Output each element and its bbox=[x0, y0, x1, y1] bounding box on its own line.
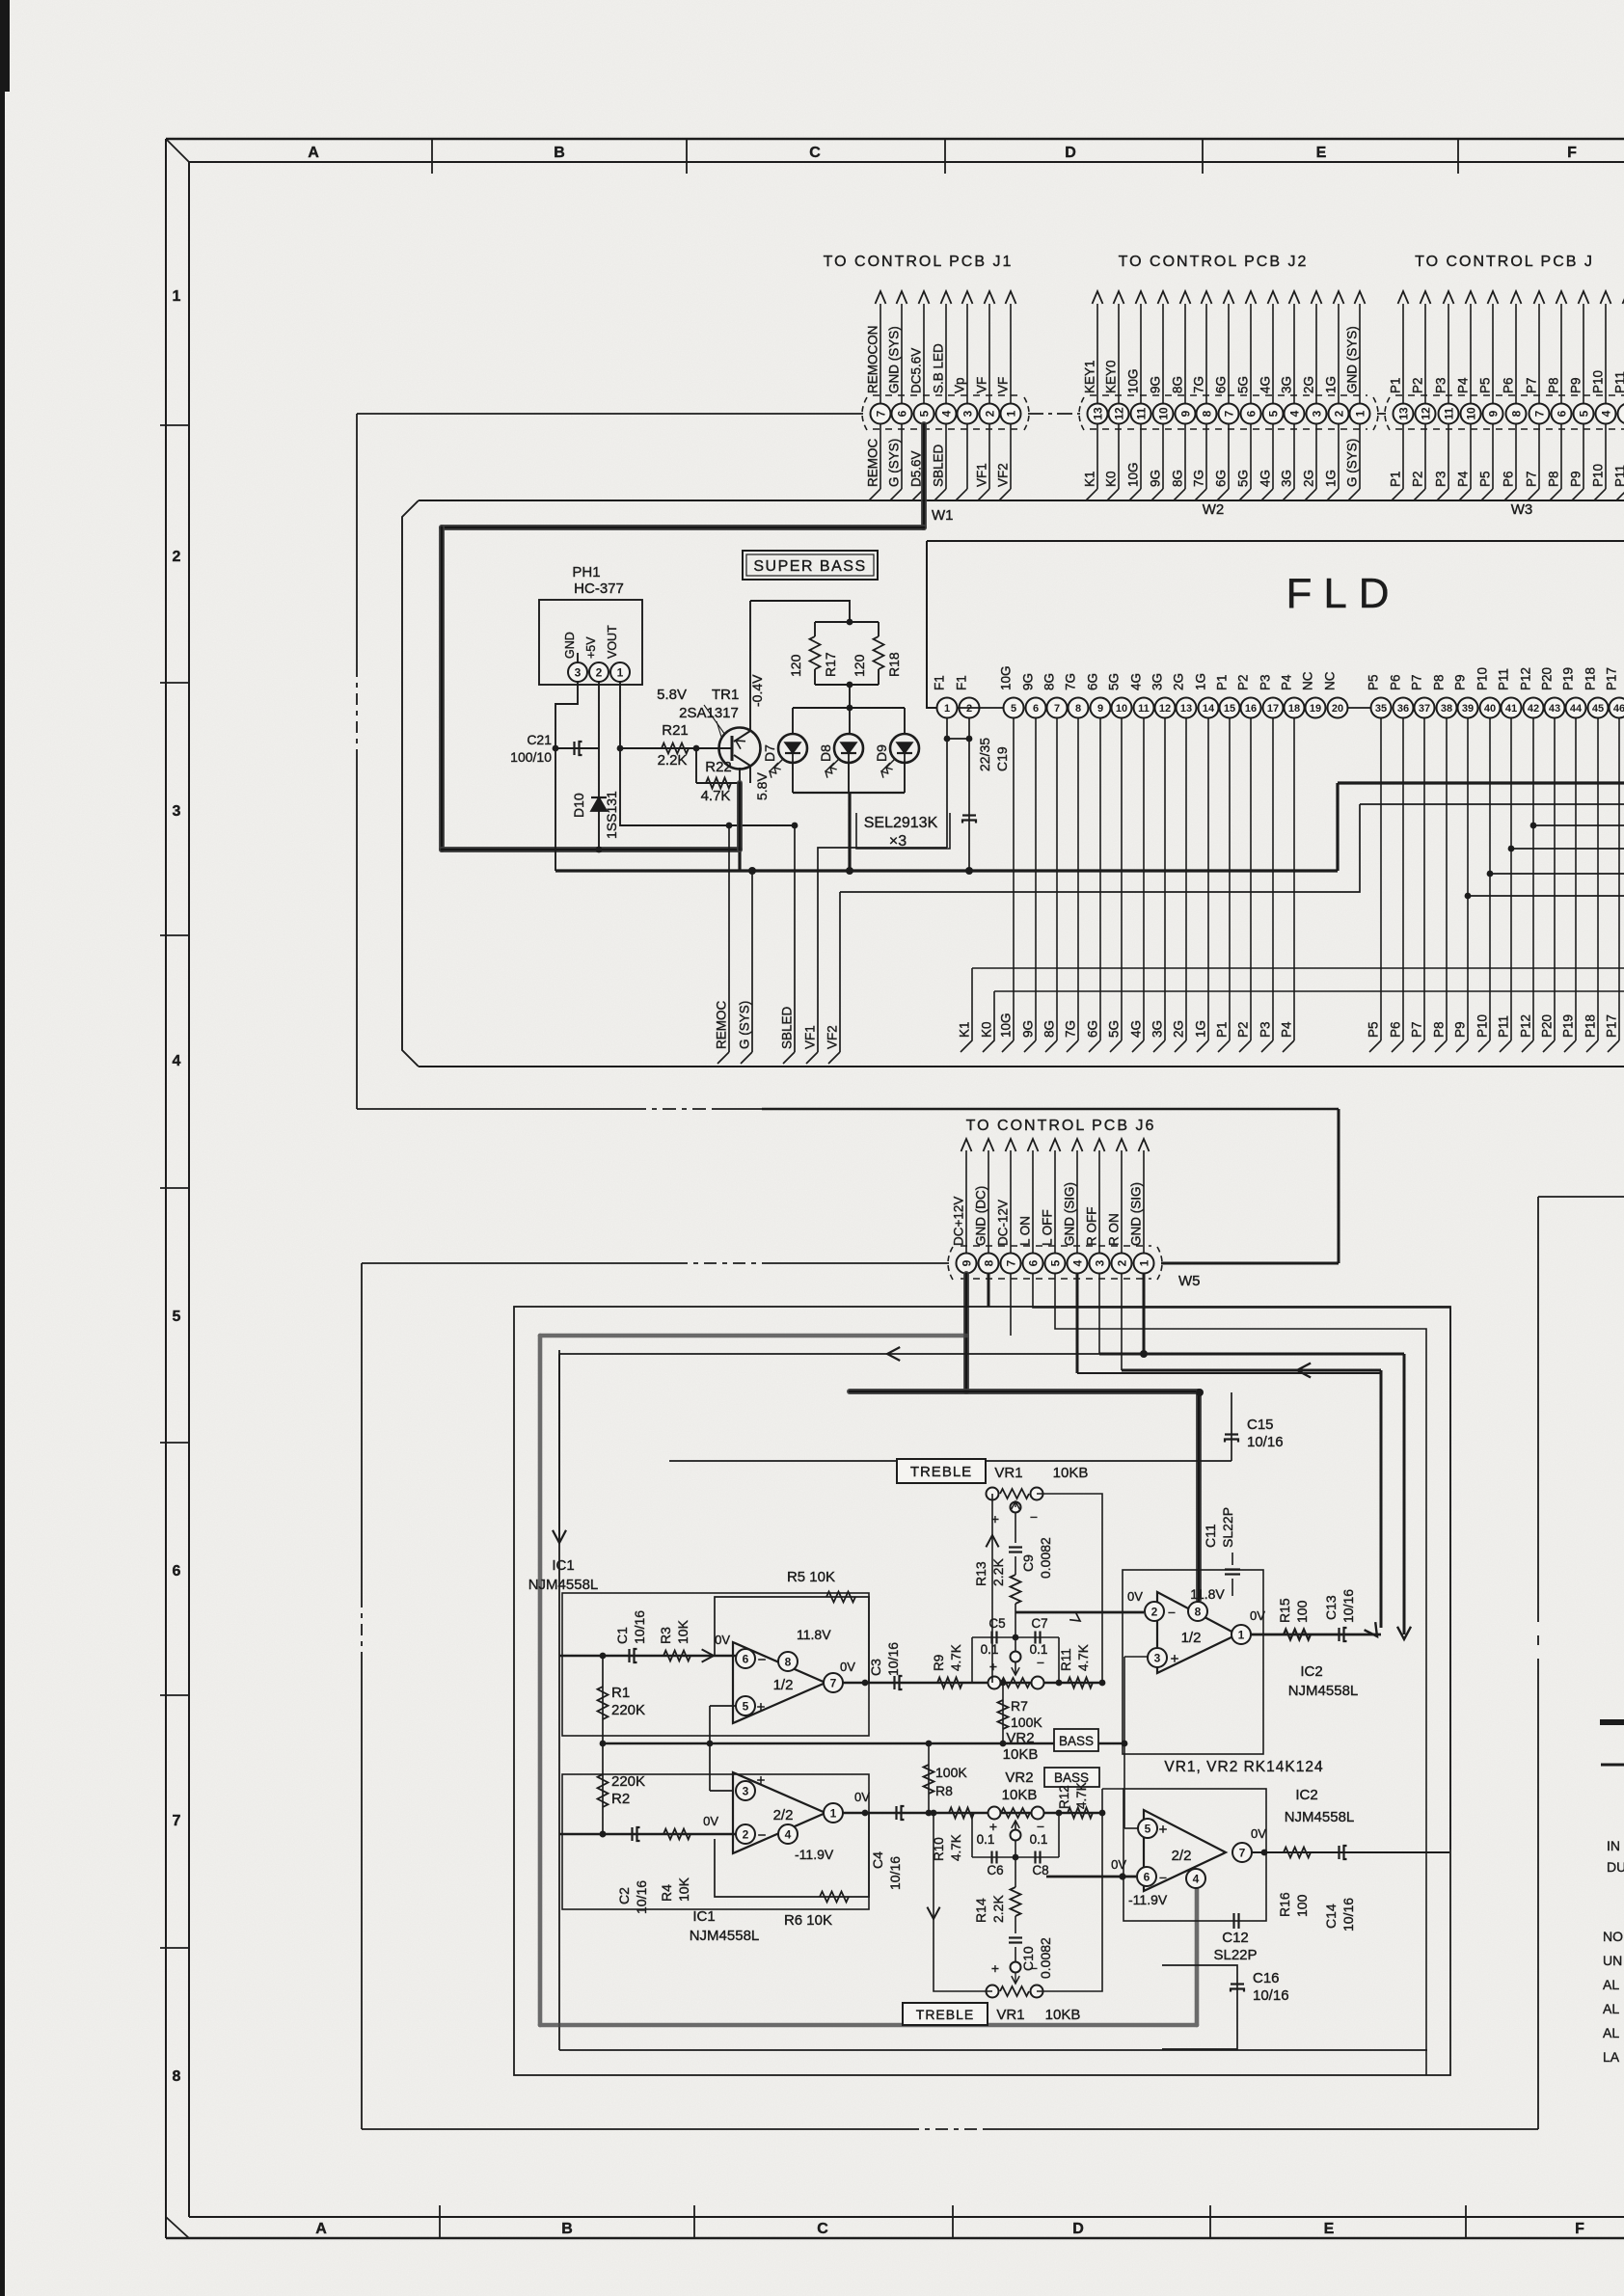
svg-text:TO CONTROL PCB J: TO CONTROL PCB J bbox=[1415, 254, 1594, 270]
svg-text:C5: C5 bbox=[988, 1616, 1005, 1631]
svg-text:10K: 10K bbox=[676, 1877, 691, 1902]
svg-text:R18: R18 bbox=[886, 652, 902, 677]
FLD display box bbox=[927, 540, 1624, 542]
svg-text:8: 8 bbox=[1075, 703, 1081, 715]
svg-text:10KB: 10KB bbox=[1002, 1787, 1038, 1803]
svg-text:A: A bbox=[308, 145, 319, 161]
wire F1 pin2 bbox=[968, 717, 970, 739]
svg-text:+: + bbox=[991, 1960, 999, 1976]
svg-text:P10: P10 bbox=[1475, 667, 1490, 690]
svg-text:K1: K1 bbox=[1083, 471, 1097, 487]
svg-text:SBLED: SBLED bbox=[932, 444, 946, 487]
IC2 pin 5 bbox=[1138, 1819, 1157, 1838]
amp inner box R bbox=[558, 1354, 560, 2050]
svg-text:120: 120 bbox=[852, 654, 867, 677]
svg-text:0.0082: 0.0082 bbox=[1038, 1537, 1053, 1579]
svg-text:12: 12 bbox=[1112, 407, 1125, 420]
wire IC1a output rail bbox=[843, 1682, 1102, 1685]
svg-text:100: 100 bbox=[1294, 1600, 1310, 1623]
op-amp IC2 2/2 box bbox=[1123, 1789, 1266, 1921]
wire IC2a output bbox=[1251, 1634, 1381, 1636]
IC2 pin 7 bbox=[1232, 1843, 1252, 1862]
FLD pins 1-2 (F1) bbox=[933, 675, 1005, 717]
svg-text:D9: D9 bbox=[874, 744, 889, 762]
svg-text:P1: P1 bbox=[1389, 471, 1403, 487]
svg-text:R22: R22 bbox=[705, 759, 732, 775]
svg-text:2.2K: 2.2K bbox=[990, 1895, 1006, 1923]
amp shielded loop (highlighted) bbox=[540, 1336, 1197, 2025]
svg-text:19: 19 bbox=[1310, 703, 1321, 715]
svg-text:18: 18 bbox=[1288, 703, 1300, 715]
svg-text:C11: C11 bbox=[1203, 1524, 1218, 1548]
svg-text:1: 1 bbox=[830, 1806, 837, 1820]
svg-text:+5V: +5V bbox=[584, 636, 598, 659]
photo sensor PH1 HC-377 bbox=[539, 600, 642, 685]
svg-text:3: 3 bbox=[575, 665, 582, 679]
svg-text:P11: P11 bbox=[1613, 465, 1624, 487]
svg-text:E: E bbox=[1316, 145, 1327, 161]
svg-text:S.B LED: S.B LED bbox=[932, 343, 946, 393]
svg-text:37: 37 bbox=[1419, 703, 1430, 715]
svg-text:IC1: IC1 bbox=[552, 1557, 574, 1574]
svg-text:3G: 3G bbox=[1280, 470, 1294, 487]
svg-text:D: D bbox=[1065, 145, 1076, 161]
svg-text:11: 11 bbox=[1442, 407, 1455, 419]
svg-text:VR1: VR1 bbox=[994, 1465, 1022, 1481]
amp inner box Q bbox=[514, 1307, 1450, 2075]
column letters top bbox=[308, 139, 1577, 174]
svg-text:C19: C19 bbox=[994, 746, 1010, 771]
svg-text:R2: R2 bbox=[611, 1791, 630, 1807]
resistor R9 4.7K bbox=[937, 1678, 962, 1688]
svg-text:P7: P7 bbox=[1410, 1021, 1424, 1038]
svg-text:P7: P7 bbox=[1410, 674, 1424, 690]
svg-text:DC5.6V: DC5.6V bbox=[909, 348, 924, 393]
svg-text:15: 15 bbox=[1224, 703, 1235, 715]
capacitor C10 0.0082 bbox=[1015, 1916, 1016, 1933]
svg-text:11: 11 bbox=[1134, 407, 1148, 419]
wire LED return (bold) bbox=[848, 793, 851, 871]
svg-text:R4: R4 bbox=[659, 1884, 674, 1902]
bold rail to R channel bbox=[1099, 1353, 1404, 1356]
wire IC1 + inputs bbox=[710, 1705, 736, 1707]
wire TR1 collector to rail bbox=[737, 783, 743, 850]
wire to LED anode bus bbox=[849, 685, 851, 708]
capacitor C9 0.0082 bbox=[1015, 1556, 1016, 1575]
connector J6 (to control PCB J6) bbox=[957, 1254, 1154, 1274]
svg-text:GND (DC): GND (DC) bbox=[974, 1186, 988, 1246]
svg-text:2.2K: 2.2K bbox=[658, 752, 688, 769]
svg-text:6: 6 bbox=[1033, 703, 1039, 715]
svg-text:4: 4 bbox=[1070, 1259, 1084, 1266]
svg-text:10/16: 10/16 bbox=[1253, 1987, 1289, 2004]
display boundary left bbox=[356, 414, 358, 665]
resistor R12 4.7K bbox=[1068, 1808, 1093, 1819]
svg-text:R17: R17 bbox=[823, 652, 838, 677]
svg-text:41: 41 bbox=[1505, 703, 1517, 715]
svg-text:R8: R8 bbox=[935, 1783, 953, 1798]
wire L ON bbox=[1033, 1274, 1450, 1850]
svg-text:P8: P8 bbox=[1432, 674, 1447, 690]
capacitor C11 SL22P bbox=[1232, 1579, 1233, 1596]
svg-text:−: − bbox=[758, 1652, 767, 1668]
svg-text:REMOC: REMOC bbox=[866, 439, 880, 488]
svg-text:K0: K0 bbox=[980, 1021, 994, 1038]
svg-text:120: 120 bbox=[788, 654, 803, 677]
IC2 pin 6 bbox=[1137, 1867, 1156, 1886]
svg-text:1G: 1G bbox=[1324, 470, 1339, 487]
wire R21 left leg bbox=[620, 824, 795, 826]
svg-text:R9: R9 bbox=[932, 1655, 946, 1671]
svg-text:220K: 220K bbox=[611, 1773, 645, 1790]
svg-text:6G: 6G bbox=[1214, 376, 1229, 393]
resistor R8 100K bbox=[928, 1743, 930, 1813]
svg-text:3: 3 bbox=[1093, 1259, 1106, 1266]
capacitor C19 22/35 bbox=[968, 739, 970, 871]
svg-text:10G: 10G bbox=[999, 1013, 1014, 1038]
svg-text:10/16: 10/16 bbox=[634, 1880, 649, 1914]
svg-text:-0.4V: -0.4V bbox=[749, 674, 765, 707]
svg-text:4: 4 bbox=[173, 1053, 181, 1069]
wire VF2 filament return bbox=[840, 804, 1360, 892]
potentiometer VR2 bass (upper) bbox=[988, 1677, 1001, 1689]
resistor R22 4.7K bbox=[695, 748, 697, 783]
svg-text:P10: P10 bbox=[1591, 370, 1606, 393]
svg-text:D7: D7 bbox=[762, 744, 777, 762]
svg-text:C: C bbox=[817, 2221, 828, 2237]
svg-text:0V: 0V bbox=[715, 1633, 730, 1647]
svg-text:8: 8 bbox=[173, 2068, 181, 2085]
amp boundary left bbox=[361, 1263, 363, 1596]
svg-text:NJM4558L: NJM4558L bbox=[690, 1928, 760, 1944]
wire K0 bbox=[994, 990, 1624, 992]
svg-text:9G: 9G bbox=[1149, 470, 1163, 487]
svg-text:10G: 10G bbox=[999, 665, 1014, 690]
svg-text:4.7K: 4.7K bbox=[949, 1644, 963, 1671]
svg-text:P1: P1 bbox=[1215, 1021, 1230, 1038]
wire 5.6V rail to FLD (bold) bbox=[738, 850, 741, 871]
svg-text:-11.9V: -11.9V bbox=[795, 1847, 834, 1862]
capacitor C21 100/10 bbox=[555, 747, 599, 749]
svg-text:GND (SYS): GND (SYS) bbox=[887, 326, 902, 393]
svg-text:10: 10 bbox=[1464, 407, 1477, 420]
svg-text:3: 3 bbox=[743, 1784, 749, 1797]
svg-text:7: 7 bbox=[1532, 410, 1546, 417]
svg-text:45: 45 bbox=[1592, 703, 1604, 715]
svg-text:5G: 5G bbox=[1107, 673, 1122, 690]
svg-text:AL: AL bbox=[1603, 1977, 1619, 1992]
svg-text:P17: P17 bbox=[1605, 667, 1619, 690]
svg-text:NJM4558L: NJM4558L bbox=[1285, 1809, 1355, 1825]
svg-text:9: 9 bbox=[1178, 410, 1192, 417]
svg-text:D: D bbox=[1072, 2221, 1084, 2237]
svg-text:8G: 8G bbox=[1042, 1020, 1057, 1038]
svg-text:14: 14 bbox=[1203, 703, 1215, 715]
connector J3 (to control PCB J3) bbox=[1394, 404, 1624, 424]
svg-text:P8: P8 bbox=[1547, 471, 1561, 487]
IC1 pin 5 bbox=[736, 1696, 755, 1715]
wire IC1b output rail bbox=[843, 1812, 1102, 1815]
svg-text:C4: C4 bbox=[870, 1851, 885, 1869]
svg-text:6G: 6G bbox=[1086, 1020, 1100, 1038]
svg-text:−: − bbox=[1030, 1960, 1038, 1976]
connector J6 arrows and labels bbox=[952, 1139, 1150, 1253]
svg-text:1: 1 bbox=[1004, 410, 1017, 417]
wire treble right riser to rail bbox=[1037, 1494, 1102, 1683]
resistor R18 120 bbox=[874, 636, 884, 669]
wire to IC2b pin5 bbox=[1124, 1827, 1138, 1829]
svg-text:10/16: 10/16 bbox=[885, 1642, 901, 1676]
op-amp IC1 1/2 triangle bbox=[733, 1642, 826, 1723]
svg-text:5G: 5G bbox=[1107, 1020, 1122, 1038]
svg-text:6: 6 bbox=[173, 1563, 181, 1580]
capacitors C6 C8 0.1 bbox=[971, 1813, 973, 1857]
svg-text:P6: P6 bbox=[1389, 1021, 1403, 1038]
svg-text:P12: P12 bbox=[1519, 1014, 1533, 1038]
svg-text:3G: 3G bbox=[1150, 673, 1165, 690]
svg-text:−: − bbox=[1168, 1605, 1176, 1620]
svg-text:HC-377: HC-377 bbox=[574, 581, 624, 597]
svg-text:10KB: 10KB bbox=[1003, 1746, 1039, 1763]
capacitor C14 10/16 bbox=[1338, 1846, 1340, 1859]
capacitor C3 10/16 bbox=[893, 1676, 895, 1689]
svg-text:C3: C3 bbox=[868, 1659, 883, 1676]
connector TO CONTROL PCB J1 boundary arcs bbox=[862, 397, 867, 430]
svg-text:KEY0: KEY0 bbox=[1104, 360, 1119, 393]
svg-text:C7: C7 bbox=[1031, 1616, 1047, 1631]
svg-text:11.8V: 11.8V bbox=[797, 1627, 831, 1642]
resistor R10 4.7K bbox=[949, 1808, 974, 1819]
svg-text:4G: 4G bbox=[1129, 1020, 1144, 1038]
svg-text:R11: R11 bbox=[1059, 1648, 1073, 1671]
svg-text:6: 6 bbox=[743, 1652, 749, 1665]
svg-text:IC2: IC2 bbox=[1295, 1787, 1317, 1803]
svg-text:0V: 0V bbox=[840, 1660, 855, 1674]
svg-text:1/2: 1/2 bbox=[1181, 1630, 1202, 1646]
svg-text:2/2: 2/2 bbox=[1172, 1848, 1192, 1864]
svg-text:3G: 3G bbox=[1150, 1020, 1165, 1038]
svg-text:4: 4 bbox=[785, 1827, 792, 1841]
svg-text:BASS: BASS bbox=[1059, 1734, 1094, 1748]
svg-text:5.8V: 5.8V bbox=[754, 772, 770, 800]
svg-text:G (SYS): G (SYS) bbox=[887, 439, 902, 487]
svg-text:+: + bbox=[757, 1699, 766, 1715]
svg-text:F1: F1 bbox=[955, 675, 969, 690]
svg-text:SEL2913K: SEL2913K bbox=[864, 815, 938, 831]
svg-text:1: 1 bbox=[1353, 410, 1367, 417]
svg-text:VR1, VR2 RK14K124: VR1, VR2 RK14K124 bbox=[1164, 1759, 1323, 1775]
svg-text:7: 7 bbox=[1239, 1846, 1246, 1859]
mid rail bbox=[603, 1742, 1124, 1744]
svg-text:R5 10K: R5 10K bbox=[787, 1569, 835, 1585]
FLD pins 5-20 bbox=[999, 665, 1371, 717]
svg-text:0V: 0V bbox=[703, 1814, 718, 1828]
svg-text:5: 5 bbox=[1011, 703, 1016, 715]
wire +12V to IC2 pin8 (highlighted) bbox=[850, 1389, 1199, 1394]
svg-text:P9: P9 bbox=[1569, 471, 1583, 487]
svg-text:6: 6 bbox=[1144, 1870, 1150, 1883]
cut symbol right edge bbox=[1600, 1722, 1624, 1765]
IC1 pin 1 bbox=[824, 1803, 843, 1823]
svg-text:C6: C6 bbox=[987, 1863, 1003, 1877]
wire treble left riser bbox=[991, 1494, 993, 1683]
resistor R11 4.7K bbox=[1068, 1678, 1093, 1688]
svg-text:+: + bbox=[989, 1659, 997, 1674]
amp boundary top (J6 row) bbox=[362, 1262, 675, 1264]
svg-text:R ON: R ON bbox=[1107, 1213, 1122, 1246]
svg-text:P18: P18 bbox=[1583, 667, 1598, 690]
svg-text:1: 1 bbox=[1238, 1628, 1245, 1641]
svg-text:5G: 5G bbox=[1236, 470, 1251, 487]
svg-text:LA: LA bbox=[1603, 2049, 1620, 2065]
svg-text:0V: 0V bbox=[854, 1790, 870, 1804]
svg-text:P20: P20 bbox=[1540, 667, 1555, 690]
amp boundary bottom bbox=[362, 2128, 907, 2130]
svg-text:KEY1: KEY1 bbox=[1083, 360, 1097, 393]
svg-text:5G: 5G bbox=[1236, 376, 1251, 393]
svg-text:5: 5 bbox=[173, 1309, 181, 1325]
svg-text:B: B bbox=[554, 145, 565, 161]
svg-text:12: 12 bbox=[1419, 407, 1432, 420]
svg-text:13: 13 bbox=[1396, 407, 1410, 420]
svg-text:9: 9 bbox=[1097, 703, 1103, 715]
wire GND(SIG) b bold bbox=[1143, 1274, 1146, 1354]
svg-text:P9: P9 bbox=[1453, 1021, 1468, 1038]
svg-text:E: E bbox=[1324, 2221, 1335, 2237]
scan edge bar bbox=[0, 0, 5, 2296]
svg-text:P6: P6 bbox=[1502, 377, 1516, 393]
wire P9 tap bbox=[1465, 893, 1472, 900]
IC1 pin 4 bbox=[778, 1824, 798, 1844]
svg-text:3G: 3G bbox=[1280, 376, 1294, 393]
svg-text:P7: P7 bbox=[1525, 377, 1539, 393]
resistor R15 100 bbox=[1284, 1630, 1311, 1640]
svg-text:2: 2 bbox=[1115, 1259, 1128, 1266]
svg-text:11: 11 bbox=[1138, 703, 1150, 715]
svg-text:4: 4 bbox=[1287, 410, 1301, 417]
svg-text:0V: 0V bbox=[1111, 1857, 1126, 1872]
svg-text:35: 35 bbox=[1375, 703, 1387, 715]
op-amp IC1 1/2 box bbox=[562, 1593, 869, 1736]
IC1 pin 2 bbox=[736, 1824, 755, 1844]
capacitor C2 10/16 bbox=[559, 1833, 736, 1835]
wire K1 bbox=[972, 967, 1624, 969]
svg-text:4.7K: 4.7K bbox=[1076, 1644, 1091, 1671]
svg-text:+: + bbox=[757, 1772, 766, 1789]
resistor R16 100 bbox=[1284, 1848, 1311, 1858]
svg-text:F: F bbox=[1567, 145, 1577, 161]
wire P11 tap bbox=[1508, 846, 1515, 852]
svg-text:2/2: 2/2 bbox=[773, 1807, 794, 1823]
svg-text:P19: P19 bbox=[1561, 1014, 1576, 1038]
svg-text:VF2: VF2 bbox=[826, 1025, 840, 1049]
svg-text:D10: D10 bbox=[571, 793, 586, 818]
connector TO CONTROL PCB J2 boundary arcs bbox=[1079, 397, 1084, 430]
display unit outline box bbox=[419, 500, 1624, 501]
svg-text:P5: P5 bbox=[1478, 377, 1493, 393]
svg-text:VF2: VF2 bbox=[996, 463, 1011, 487]
svg-text:1SS131: 1SS131 bbox=[604, 791, 619, 839]
feedback resistor R6 10K bbox=[715, 1813, 869, 1897]
svg-text:R6 10K: R6 10K bbox=[784, 1912, 832, 1929]
resistor R1 220K bbox=[602, 1656, 604, 1743]
transistor TR1 2SA1317 bbox=[719, 728, 761, 770]
svg-text:4.7K: 4.7K bbox=[1074, 1782, 1089, 1809]
svg-text:P2: P2 bbox=[1411, 471, 1425, 487]
svg-text:100K: 100K bbox=[1011, 1715, 1042, 1730]
svg-text:4: 4 bbox=[1193, 1872, 1200, 1885]
svg-text:9: 9 bbox=[960, 1259, 973, 1266]
svg-text:G (SYS): G (SYS) bbox=[1345, 439, 1360, 487]
svg-text:2G: 2G bbox=[1172, 1020, 1186, 1038]
svg-text:D8: D8 bbox=[818, 744, 833, 762]
potentiometer VR2 bass (lower) bbox=[988, 1807, 1001, 1820]
svg-text:P4: P4 bbox=[1456, 377, 1471, 393]
svg-text:PH1: PH1 bbox=[572, 564, 600, 581]
svg-text:39: 39 bbox=[1462, 703, 1474, 715]
label SUPER BASS bbox=[743, 551, 878, 580]
svg-text:Vp: Vp bbox=[953, 377, 967, 393]
svg-text:16: 16 bbox=[1245, 703, 1257, 715]
connector TO CONTROL PCB J arrows and labels bbox=[1389, 291, 1624, 500]
svg-text:UN: UN bbox=[1603, 1953, 1622, 1968]
LED D9 bbox=[890, 734, 919, 763]
svg-text:5.8V: 5.8V bbox=[657, 687, 687, 703]
svg-text:P3: P3 bbox=[1434, 471, 1448, 487]
capacitor C1 10/16 bbox=[559, 1655, 736, 1657]
svg-text:−: − bbox=[1030, 1509, 1038, 1525]
op-amp IC2 1/2 triangle bbox=[1157, 1592, 1237, 1673]
svg-text:P6: P6 bbox=[1502, 471, 1516, 487]
svg-text:P6: P6 bbox=[1389, 674, 1403, 690]
svg-text:5: 5 bbox=[1577, 410, 1590, 417]
row numbers bbox=[160, 288, 189, 2085]
IC2 pin 3 bbox=[1148, 1648, 1167, 1667]
svg-text:AL: AL bbox=[1603, 2001, 1619, 2016]
svg-text:5: 5 bbox=[1048, 1259, 1062, 1266]
svg-text:10/16: 10/16 bbox=[1340, 1589, 1356, 1623]
svg-text:P9: P9 bbox=[1569, 377, 1583, 393]
bold wire to IC2b pin 6 bbox=[1046, 1876, 1136, 1878]
svg-text:5: 5 bbox=[1145, 1822, 1151, 1835]
svg-text:SL22P: SL22P bbox=[1213, 1947, 1257, 1963]
svg-text:TO CONTROL PCB J2: TO CONTROL PCB J2 bbox=[1119, 254, 1309, 270]
right PCB boundary bbox=[1537, 1668, 1539, 2129]
feedback resistor R5 10K bbox=[715, 1597, 869, 1683]
svg-text:R21: R21 bbox=[662, 722, 689, 739]
svg-text:K0: K0 bbox=[1104, 471, 1119, 487]
svg-text:VR1: VR1 bbox=[996, 2007, 1024, 2023]
potentiometer VR1 treble (lower) bbox=[987, 1985, 999, 1998]
svg-text:VOUT: VOUT bbox=[606, 625, 619, 659]
svg-text:7: 7 bbox=[173, 1813, 181, 1829]
svg-text:2: 2 bbox=[983, 410, 996, 417]
IC1 pin 7 bbox=[824, 1673, 843, 1692]
FLD pins 35-46 bbox=[1367, 667, 1624, 718]
svg-text:10K: 10K bbox=[675, 1619, 690, 1644]
resistor R2 220K bbox=[602, 1743, 604, 1834]
svg-text:5: 5 bbox=[1266, 410, 1280, 417]
svg-text:0V: 0V bbox=[1251, 1826, 1266, 1841]
svg-text:IC1: IC1 bbox=[692, 1908, 715, 1925]
bottom cable entry labels (left group) bbox=[715, 1001, 841, 1065]
wire reference rail riser to IC2 + inputs bbox=[1124, 1656, 1148, 1658]
svg-text:13: 13 bbox=[1091, 407, 1104, 420]
wire treble right riser to rail lower bbox=[1037, 1813, 1102, 1991]
svg-text:R7: R7 bbox=[1011, 1698, 1028, 1714]
svg-text:0.1: 0.1 bbox=[981, 1642, 999, 1657]
svg-text:7G: 7G bbox=[1192, 376, 1206, 393]
